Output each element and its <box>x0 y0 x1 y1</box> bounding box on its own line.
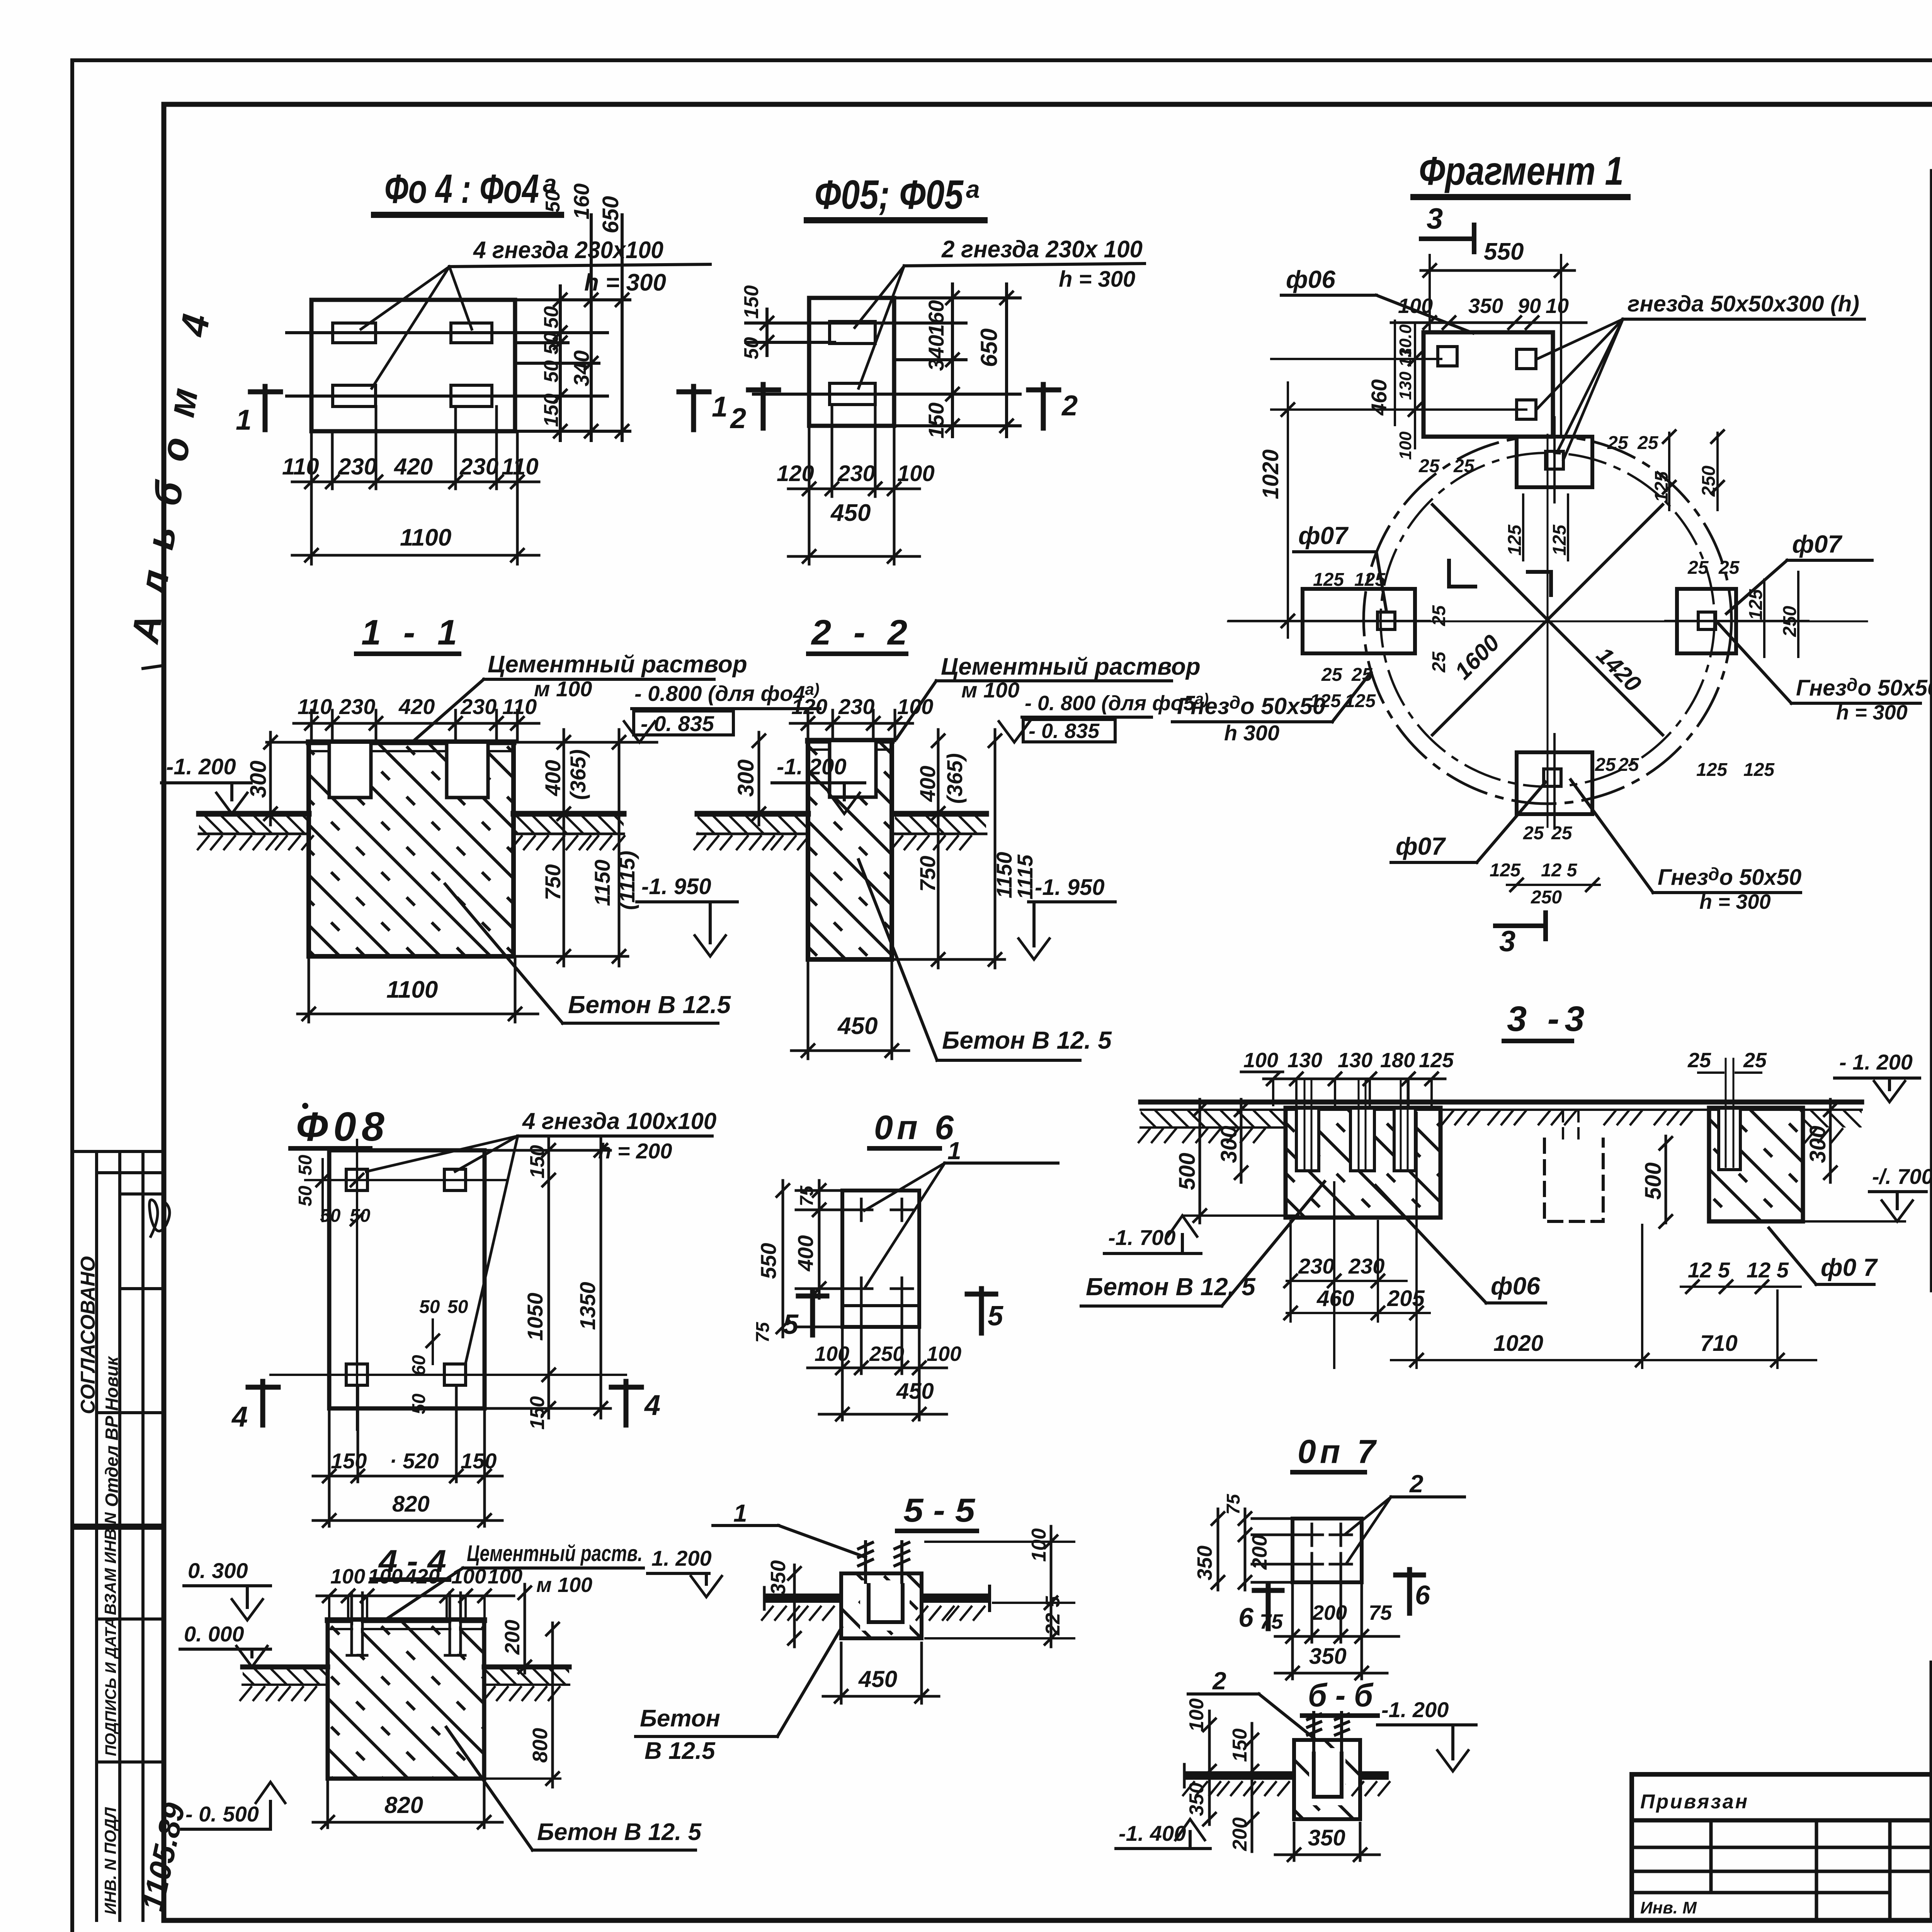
svg-text:-1. 200: -1. 200 <box>1381 1697 1449 1722</box>
svg-text:25: 25 <box>1351 665 1373 685</box>
svg-text:Инв. М: Инв. М <box>1640 1898 1697 1917</box>
floor strips <box>243 1667 328 1685</box>
svg-text:25: 25 <box>1687 1049 1711 1072</box>
svg-text:1 - 1: 1 - 1 <box>361 613 463 652</box>
svg-text:160: 160 <box>924 300 948 336</box>
svg-text:100: 100 <box>488 1565 522 1588</box>
svg-text:50 50: 50 50 <box>540 332 563 383</box>
svg-text:150: 150 <box>1229 1728 1251 1762</box>
section 4-4 <box>180 1541 702 1850</box>
svg-text:Цементный раствор: Цементный раствор <box>941 653 1201 680</box>
left dims <box>1208 1711 1211 1825</box>
svg-text:1150: 1150 <box>590 860 614 906</box>
section 6-6 <box>1116 1667 1476 1861</box>
svg-text:250: 250 <box>1699 466 1719 497</box>
svg-text:180: 180 <box>1380 1049 1415 1072</box>
svg-text:340: 340 <box>569 350 594 386</box>
svg-text:420: 420 <box>405 1565 440 1588</box>
svg-text:2: 2 <box>1409 1470 1423 1498</box>
svg-text:1100: 1100 <box>386 976 438 1003</box>
svg-text:450: 450 <box>858 1666 897 1692</box>
right dims <box>892 730 1005 968</box>
svg-text:-1. 700: -1. 700 <box>1108 1225 1175 1250</box>
svg-text:1: 1 <box>236 404 252 436</box>
svg-text:ПОДПИСЬ И ДАТА: ПОДПИСЬ И ДАТА <box>102 1617 119 1756</box>
svg-text:120: 120 <box>791 694 827 719</box>
svg-text:100: 100 <box>1028 1528 1050 1562</box>
svg-text:25: 25 <box>1607 433 1629 453</box>
svg-text:ф07: ф07 <box>1298 522 1349 549</box>
svg-text:100: 100 <box>368 1565 403 1588</box>
svg-text:75: 75 <box>1260 1610 1283 1633</box>
svg-text:h = 300: h = 300 <box>1699 890 1771 913</box>
svg-text:450: 450 <box>837 1013 878 1039</box>
svg-text:125: 125 <box>1490 860 1521 881</box>
svg-text:1020: 1020 <box>1258 449 1283 499</box>
svg-text:6: 6 <box>1238 1602 1254 1633</box>
plan Фо8 <box>231 1103 716 1527</box>
svg-text:230: 230 <box>1348 1254 1384 1278</box>
svg-text:205: 205 <box>1387 1286 1425 1311</box>
svg-text:150: 150 <box>461 1449 497 1473</box>
svg-text:100: 100 <box>330 1565 365 1588</box>
svg-text:230: 230 <box>1298 1254 1334 1278</box>
svg-text:10: 10 <box>1546 294 1569 318</box>
left dim 300 <box>269 732 272 825</box>
svg-text:Ф05; Ф05: Ф05; Ф05 <box>815 172 964 218</box>
right dims <box>514 730 628 966</box>
pad Фо6 (big square) <box>1423 332 1553 437</box>
svg-text:60: 60 <box>409 1355 429 1376</box>
svg-text:150: 150 <box>526 1396 549 1430</box>
pad right (Фо7) <box>1677 589 1736 653</box>
svg-text:230: 230 <box>459 454 498 480</box>
svg-text:1020: 1020 <box>1493 1331 1543 1356</box>
svg-text:12 5: 12 5 <box>1541 860 1578 881</box>
svg-text:300: 300 <box>1216 1126 1242 1163</box>
svg-text:Бетон В 12.5: Бетон В 12.5 <box>568 991 731 1019</box>
svg-text:12 5: 12 5 <box>1688 1258 1730 1282</box>
dash-dot circles <box>1364 436 1731 804</box>
svg-text:м 100: м 100 <box>536 1573 592 1597</box>
pad top (Фо7) <box>1517 437 1592 487</box>
left margin upper block (СОГЛАСОВАНО) <box>72 1151 164 1525</box>
svg-text:6: 6 <box>1415 1580 1430 1610</box>
svg-text:3: 3 <box>1499 925 1515 958</box>
diagonals <box>1432 505 1663 735</box>
block <box>328 1620 484 1779</box>
svg-text:460: 460 <box>1316 1286 1354 1311</box>
svg-text:50: 50 <box>350 1206 371 1226</box>
bottom dims <box>808 1299 947 1420</box>
svg-text:230: 230 <box>837 461 875 486</box>
svg-text:-1. 950: -1. 950 <box>641 874 711 899</box>
svg-text:50: 50 <box>295 1155 316 1175</box>
svg-text:100: 100 <box>1243 1049 1278 1072</box>
svg-text:450: 450 <box>830 500 871 526</box>
svg-text:2: 2 <box>1061 389 1078 422</box>
dim 550 <box>1421 269 1575 272</box>
svg-text:500: 500 <box>1641 1162 1666 1200</box>
dims left <box>1199 1099 1201 1223</box>
svg-text:0. 000: 0. 000 <box>184 1622 244 1646</box>
left margin lower block (ИНВ / ПОДПИСЬ / ВЗАМ) <box>72 1528 164 1920</box>
svg-text:0п 6: 0п 6 <box>874 1108 957 1146</box>
svg-text:750: 750 <box>915 856 940 892</box>
svg-text:1: 1 <box>733 1499 747 1527</box>
svg-text:м 100: м 100 <box>961 678 1019 702</box>
svg-text:230: 230 <box>460 694 497 719</box>
svg-text:250: 250 <box>869 1342 904 1366</box>
bottom dims <box>313 1385 502 1526</box>
plan ОП 6 <box>753 1108 1058 1420</box>
svg-text:- 1. 200: - 1. 200 <box>1839 1050 1913 1074</box>
right dim chains <box>485 1136 611 1418</box>
svg-text:ВЗАМ ИНВ.N: ВЗАМ ИНВ.N <box>101 1512 119 1615</box>
svg-text:110: 110 <box>502 694 537 719</box>
svg-text:ф07: ф07 <box>1792 530 1843 558</box>
svg-text:90: 90 <box>1518 294 1541 318</box>
svg-text:25: 25 <box>1418 456 1440 476</box>
svg-text:125: 125 <box>1313 570 1344 590</box>
svg-text:4 гнезда 100х100: 4 гнезда 100х100 <box>522 1108 716 1134</box>
svg-text:1: 1 <box>947 1137 961 1165</box>
svg-text:400: 400 <box>541 760 565 796</box>
Фрагмент 1 <box>1228 149 1932 958</box>
svg-text:· 520: · 520 <box>389 1449 439 1473</box>
floor strips <box>697 814 808 834</box>
svg-text:300: 300 <box>246 760 271 798</box>
svg-text:100: 100 <box>1185 1698 1208 1732</box>
svg-text:5 - 5: 5 - 5 <box>903 1492 975 1529</box>
svg-text:0п 7: 0п 7 <box>1298 1433 1379 1470</box>
svg-text:25: 25 <box>1618 755 1639 775</box>
middle dashed hidden foundation <box>1544 1139 1603 1221</box>
svg-text:Отдел ВР Новик: Отдел ВР Новик <box>102 1355 122 1507</box>
svg-text:200: 200 <box>1312 1601 1347 1624</box>
svg-text:200: 200 <box>1229 1817 1251 1851</box>
section mark 2 right <box>1041 384 1046 428</box>
svg-text:25: 25 <box>1523 823 1544 844</box>
bottom dims <box>788 405 920 564</box>
svg-text:500: 500 <box>1175 1153 1200 1190</box>
bottom dim 350 <box>1275 1823 1379 1861</box>
svg-text:400: 400 <box>793 1235 818 1272</box>
svg-text:Бетон: Бетон <box>640 1705 720 1732</box>
svg-text:4: 4 <box>231 1401 248 1433</box>
svg-text:125: 125 <box>1310 691 1341 711</box>
svg-text:650: 650 <box>976 328 1002 367</box>
svg-text:400: 400 <box>915 766 940 802</box>
svg-text:25: 25 <box>1321 665 1343 685</box>
corner brackets <box>1449 561 1475 587</box>
svg-text:130: 130 <box>1338 1049 1372 1072</box>
svg-text:-1. 200: -1. 200 <box>166 754 236 779</box>
svg-text:(365): (365) <box>566 749 590 800</box>
svg-text:125: 125 <box>1345 691 1376 711</box>
svg-text:(365): (365) <box>942 753 967 804</box>
svg-text:0. 300: 0. 300 <box>188 1558 248 1583</box>
svg-text:125: 125 <box>1419 1049 1454 1072</box>
svg-text:ИНВ. N ПОДЛ: ИНВ. N ПОДЛ <box>101 1807 119 1915</box>
svg-text:ф06: ф06 <box>1286 265 1335 293</box>
svg-text:- 0. 835: - 0. 835 <box>1029 719 1100 743</box>
bottom dims <box>1287 1113 1816 1368</box>
section 3-3 <box>1081 999 1932 1368</box>
svg-text:1: 1 <box>712 391 728 423</box>
svg-text:h = 300: h = 300 <box>1836 701 1908 724</box>
section marks 5 <box>810 1291 815 1335</box>
svg-text:125: 125 <box>1354 570 1386 590</box>
svg-text:2: 2 <box>730 402 746 434</box>
right dims <box>524 1584 526 1673</box>
svg-text:100: 100 <box>815 1342 849 1366</box>
svg-text:Ф08: Ф08 <box>296 1104 390 1150</box>
svg-text:300: 300 <box>733 759 759 797</box>
svg-text:100: 100 <box>897 461 935 486</box>
svg-text:420: 420 <box>394 454 433 480</box>
section marks 6 <box>1266 1585 1271 1629</box>
svg-text:75: 75 <box>1223 1493 1244 1515</box>
bottom dim 1100 <box>298 956 538 1022</box>
svg-text:710: 710 <box>1700 1331 1738 1356</box>
svg-text:350: 350 <box>1185 1782 1208 1816</box>
svg-text:250: 250 <box>1531 887 1562 908</box>
svg-text:гнезда 50х50х300 (h): гнезда 50х50х300 (h) <box>1628 291 1859 316</box>
svg-text:340: 340 <box>924 335 948 371</box>
svg-text:Гнездо 50х50: Гнездо 50х50 <box>1796 675 1932 701</box>
concrete block <box>309 742 514 956</box>
svg-text:22 5: 22 5 <box>1042 1596 1064 1636</box>
svg-text:420: 420 <box>398 694 435 719</box>
svg-text:25: 25 <box>1429 605 1449 626</box>
svg-text:5: 5 <box>783 1309 799 1340</box>
svg-text:Фрагмент 1: Фрагмент 1 <box>1419 149 1624 194</box>
svg-text:Бетон В 12. 5: Бетон В 12. 5 <box>942 1026 1112 1054</box>
floor strips <box>199 814 309 834</box>
section mark 1 left <box>263 386 268 430</box>
svg-text:450: 450 <box>896 1379 934 1404</box>
svg-text:б - б: б - б <box>1308 1677 1374 1713</box>
svg-text:350: 350 <box>1468 294 1503 318</box>
svg-text:230: 230 <box>339 694 375 719</box>
svg-text:25: 25 <box>1637 433 1659 453</box>
svg-text:25: 25 <box>1687 558 1709 578</box>
svg-text:800: 800 <box>529 1728 552 1763</box>
svg-text:ф0 7: ф0 7 <box>1821 1253 1878 1281</box>
pad left (Фо7) <box>1303 589 1415 653</box>
right foundation <box>1709 1108 1803 1221</box>
left dim 300 <box>758 732 760 825</box>
svg-text:550: 550 <box>1484 238 1524 265</box>
svg-text:2 гнезда 230х 100: 2 гнезда 230х 100 <box>941 236 1143 263</box>
svg-text:h 300: h 300 <box>1224 721 1279 745</box>
svg-text:150: 150 <box>331 1449 367 1473</box>
svg-text:25: 25 <box>1595 755 1616 775</box>
svg-text:25: 25 <box>1551 823 1573 844</box>
svg-text:125: 125 <box>1743 760 1775 780</box>
svg-text:ф06: ф06 <box>1491 1272 1540 1300</box>
bottom dimension chains <box>292 406 539 564</box>
svg-text:150: 150 <box>526 1145 549 1179</box>
svg-text:350: 350 <box>1193 1546 1216 1580</box>
svg-text:100: 100 <box>897 694 933 719</box>
svg-text:25: 25 <box>1718 558 1740 578</box>
svg-text:-1. 200: -1. 200 <box>777 754 847 779</box>
svg-text:В 12.5: В 12.5 <box>645 1738 716 1764</box>
svg-text:160: 160 <box>569 184 594 219</box>
svg-text:75: 75 <box>753 1321 773 1343</box>
svg-text:Привязан: Привязан <box>1640 1791 1749 1813</box>
svg-text:5: 5 <box>988 1301 1003 1332</box>
svg-text:- 0. 500: - 0. 500 <box>185 1802 259 1826</box>
svg-text:1350: 1350 <box>575 1282 600 1330</box>
svg-text:350: 350 <box>1308 1825 1345 1850</box>
section mark 1 right <box>691 386 696 430</box>
svg-text:820: 820 <box>384 1792 423 1818</box>
top dimension chain <box>294 710 539 742</box>
svg-text:100: 100 <box>451 1565 486 1588</box>
svg-text:Бетон В 12. 5: Бетон В 12. 5 <box>537 1819 702 1845</box>
svg-text:75: 75 <box>1369 1601 1392 1624</box>
privyazan block <box>1632 1774 1932 1920</box>
svg-text:Гнездо 50х50: Гнездо 50х50 <box>1658 864 1801 890</box>
section 2-2 <box>694 613 1371 1060</box>
svg-text:300: 300 <box>1805 1126 1830 1163</box>
svg-text:150: 150 <box>740 285 763 319</box>
svg-text:-1. 950: -1. 950 <box>1035 875 1105 900</box>
svg-text:150: 150 <box>924 403 948 439</box>
svg-text:230: 230 <box>338 454 377 480</box>
svg-text:50: 50 <box>542 190 564 213</box>
svg-text:10.0: 10.0 <box>1396 324 1415 357</box>
svg-text:125: 125 <box>1696 760 1728 780</box>
svg-text:100: 100 <box>927 1342 961 1366</box>
svg-text:50: 50 <box>740 337 763 359</box>
svg-text:110: 110 <box>502 454 539 480</box>
svg-text:50: 50 <box>447 1297 468 1317</box>
section marks 4 <box>260 1381 265 1425</box>
svg-text:460: 460 <box>1367 379 1391 416</box>
svg-text:Цементный раствор: Цементный раствор <box>488 651 747 678</box>
svg-text:h = 300: h = 300 <box>584 269 666 296</box>
svg-text:1. 200: 1. 200 <box>651 1546 712 1570</box>
svg-text:25: 25 <box>1453 456 1475 476</box>
svg-text:150: 150 <box>540 393 563 427</box>
svg-text:50: 50 <box>295 1185 316 1206</box>
plan view Фо5/Фо5а <box>730 172 1145 564</box>
svg-text:ф07: ф07 <box>1396 832 1446 860</box>
svg-text:200: 200 <box>1248 1535 1271 1570</box>
svg-text:230: 230 <box>838 694 874 719</box>
pad bottom (Фо7) <box>1517 752 1592 814</box>
svg-text:Гнездо 50х50: Гнездо 50х50 <box>1177 692 1325 719</box>
svg-text:110: 110 <box>298 694 332 719</box>
svg-text:h = 300: h = 300 <box>1059 267 1135 292</box>
section 1-1 <box>162 613 820 1023</box>
svg-text:50: 50 <box>419 1297 440 1317</box>
section mark 2 left <box>761 384 766 428</box>
anchor bolts <box>347 1593 465 1655</box>
svg-text:50: 50 <box>409 1393 429 1414</box>
svg-text:СОГЛАСОВАНО: СОГЛАСОВАНО <box>77 1256 99 1414</box>
svg-text:-/. 700: -/. 700 <box>1872 1164 1932 1189</box>
ground line <box>1141 1100 1862 1105</box>
svg-text:200: 200 <box>501 1620 524 1655</box>
svg-text:50: 50 <box>320 1206 341 1226</box>
bottom dims <box>1275 1575 1399 1679</box>
svg-text:100: 100 <box>1396 431 1415 460</box>
svg-text:12 5: 12 5 <box>1747 1258 1789 1282</box>
svg-text:м 100: м 100 <box>534 677 592 701</box>
svg-text:3: 3 <box>1427 202 1443 235</box>
plan ОП 7 <box>1193 1433 1464 1679</box>
svg-text:50: 50 <box>540 306 563 328</box>
svg-text:75: 75 <box>797 1185 817 1206</box>
svg-text:120: 120 <box>777 461 814 486</box>
left foundation <box>1286 1108 1440 1218</box>
bottom dim 450 <box>791 959 909 1059</box>
svg-text:4: 4 <box>644 1389 660 1421</box>
svg-text:2 - 2: 2 - 2 <box>811 613 913 652</box>
svg-text:Цементный раств.: Цементный раств. <box>467 1541 643 1566</box>
svg-text:650: 650 <box>598 196 623 233</box>
svg-text:110: 110 <box>282 454 319 480</box>
concrete block <box>808 741 892 959</box>
svg-text:25: 25 <box>1429 651 1449 673</box>
svg-text:3 -3: 3 -3 <box>1507 999 1590 1039</box>
plan view Фо4/Фо4а <box>236 166 728 564</box>
svg-text:550: 550 <box>756 1243 781 1279</box>
dims right of middle <box>1665 1136 1667 1223</box>
svg-text:1115: 1115 <box>1013 854 1037 900</box>
svg-text:1050: 1050 <box>523 1293 547 1341</box>
svg-text:350: 350 <box>1309 1644 1347 1669</box>
svg-text:820: 820 <box>392 1492 430 1517</box>
svg-text:Фо 4 : Фо4: Фо 4 : Фо4 <box>384 166 539 212</box>
svg-text:25: 25 <box>1743 1049 1767 1072</box>
top dims <box>790 710 913 741</box>
svg-text:1100: 1100 <box>400 524 451 551</box>
svg-text:130: 130 <box>1287 1049 1322 1072</box>
dim 100 350 90 10 <box>1391 321 1586 324</box>
centerlines <box>1229 321 1808 827</box>
svg-text:2: 2 <box>1212 1667 1226 1695</box>
svg-text:750: 750 <box>541 864 565 900</box>
svg-text:350: 350 <box>767 1560 790 1595</box>
bottom dim <box>313 1782 502 1828</box>
svg-text:-1. 400: -1. 400 <box>1119 1821 1186 1845</box>
section 5-5 <box>636 1492 1074 1764</box>
svg-text:а: а <box>966 175 980 203</box>
svg-text:4 гнезда 230х100: 4 гнезда 230х100 <box>473 237 663 264</box>
